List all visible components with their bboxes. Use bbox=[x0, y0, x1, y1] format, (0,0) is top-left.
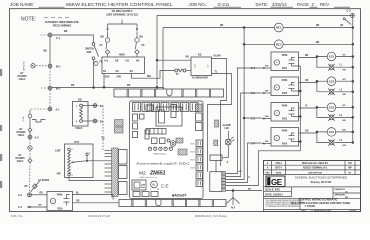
svg-text:(AIRFLOW): (AIRFLOW) bbox=[23, 61, 26, 71]
wire to lamp L1 bbox=[317, 57, 329, 68]
wire W-1 to W-2 dashed bbox=[49, 68, 51, 86]
svg-text:BK: BK bbox=[44, 50, 48, 53]
K2 bottom label bbox=[192, 76, 208, 79]
wire sensor2 dashed down bbox=[29, 150, 31, 158]
by others field text 1 bbox=[17, 73, 27, 81]
transformer primary tap labels bbox=[105, 59, 140, 63]
wire C-1 down to W-1 bbox=[44, 37, 51, 64]
controller small print bbox=[139, 176, 157, 179]
wire GC3 to bus bbox=[336, 105, 354, 108]
supply label line1 bbox=[111, 9, 132, 13]
terminal A-1 bbox=[48, 107, 60, 111]
relay RX5 contact bbox=[64, 195, 70, 206]
thermostat DT1 box bbox=[65, 141, 94, 178]
wire K2 output HL bbox=[212, 56, 227, 166]
svg-text:FIELD: FIELD bbox=[18, 135, 25, 137]
terminal S-2 bbox=[93, 119, 104, 123]
relay RX3 coil bbox=[274, 110, 279, 115]
footer filename left bbox=[11, 214, 23, 218]
svg-text:c: c bbox=[150, 189, 151, 191]
relay RX1 coil bbox=[274, 60, 279, 65]
svg-text:TO 480V SUPPLY: TO 480V SUPPLY bbox=[111, 9, 132, 13]
wire L1 to bus bbox=[334, 66, 354, 72]
svg-text:K2: K2 bbox=[198, 53, 202, 57]
svg-text:BO3: BO3 bbox=[191, 160, 195, 162]
svg-text:BK: BK bbox=[71, 85, 75, 87]
svg-text:BK: BK bbox=[101, 36, 105, 39]
svg-text:PAM: PAM bbox=[282, 128, 288, 132]
upper connector block 1 bbox=[115, 120, 124, 127]
wire GC4 to bus bbox=[336, 129, 354, 133]
left edge mark 1 bbox=[0, 69, 2, 76]
svg-text:KOK .FIL: KOK .FIL bbox=[11, 214, 23, 218]
svg-text:REV.: REV. bbox=[320, 2, 330, 7]
svg-text:Ramsey, NJ 07446: Ramsey, NJ 07446 bbox=[311, 181, 332, 184]
output connector J1 bbox=[210, 172, 222, 192]
controller jumper row bbox=[148, 147, 172, 156]
controller mid parts bbox=[145, 129, 183, 144]
wire RX4 output to GC4 bbox=[299, 131, 328, 134]
svg-text:GENERAL ELECTRONIC ENTERPRIS: GENERAL ELECTRONIC ENTERPRISES bbox=[295, 175, 348, 179]
svg-text:PAGE: PAGE bbox=[297, 2, 309, 7]
svg-text:40F: 40F bbox=[57, 173, 62, 176]
wire A-1 dashed left bbox=[31, 108, 48, 110]
wire K2 output TL bbox=[208, 71, 232, 171]
wire pin5 common chain bbox=[226, 66, 301, 186]
wire W-2 BK run to rail bbox=[52, 85, 164, 89]
drawn by cell bbox=[333, 187, 361, 199]
svg-text:BO1: BO1 bbox=[191, 144, 195, 146]
terminal S-1 bbox=[93, 104, 104, 108]
contactor coil GC2 bbox=[327, 77, 336, 86]
svg-text:C-1: C-1 bbox=[56, 37, 61, 40]
svg-text:OR: OR bbox=[305, 80, 309, 82]
wire GC1 to bus bbox=[336, 54, 354, 57]
DT1 terminal top bbox=[68, 148, 73, 151]
svg-text:OTHERS: OTHERS bbox=[17, 76, 27, 78]
svg-text:GC3: GC3 bbox=[329, 106, 335, 110]
terminal block group 3 bbox=[119, 182, 128, 195]
svg-text:JOB NAME:: JOB NAME: bbox=[10, 2, 34, 7]
output connector pin column bbox=[222, 172, 226, 192]
svg-text:480V: 480V bbox=[119, 53, 125, 57]
relay RX5 box bbox=[47, 192, 73, 211]
left edge mark 3 bbox=[0, 154, 2, 161]
relay RX4 contact bbox=[289, 133, 295, 142]
svg-text:WH: WH bbox=[343, 70, 347, 72]
svg-text:X3: X3 bbox=[130, 69, 134, 73]
svg-text:BY: BY bbox=[18, 155, 22, 157]
left edge mark 2 bbox=[0, 125, 2, 131]
supply label line2 bbox=[106, 13, 137, 17]
svg-text:4 STAGE: 4 STAGE bbox=[305, 205, 316, 208]
DT1 terminal bottom bbox=[68, 173, 73, 177]
svg-text:REPLACE GC-1 MFG BY: REPLACE GC-1 MFG BY bbox=[302, 162, 328, 165]
relay RX4 box bbox=[271, 128, 299, 147]
wire right bus vertical bbox=[352, 18, 354, 144]
svg-text:RX5: RX5 bbox=[57, 207, 63, 211]
svg-text:RH: RH bbox=[348, 163, 352, 165]
footer dwg filename bbox=[195, 214, 227, 218]
wire to lamp L3 bbox=[317, 107, 329, 117]
header job no bbox=[189, 2, 242, 7]
relay RX1 box bbox=[271, 52, 299, 71]
svg-text:SHEET: SHEET bbox=[351, 210, 356, 212]
relay RX2 coil bbox=[274, 85, 279, 90]
svg-text:ADDED TERMINAL N-2: ADDED TERMINAL N-2 bbox=[303, 167, 328, 170]
svg-text:BY: BY bbox=[19, 129, 23, 131]
proprietary small print bbox=[266, 199, 305, 208]
svg-text:1/5/14: 1/5/14 bbox=[275, 162, 282, 165]
svg-text:DASHED LINES INDICATE: DASHED LINES INDICATE bbox=[45, 20, 79, 24]
controller top terminal blocks bbox=[133, 103, 199, 112]
svg-text:FIELD: FIELD bbox=[76, 128, 83, 130]
wire W-2 to A-1 dashed bbox=[49, 90, 51, 107]
svg-text:WH: WH bbox=[265, 66, 269, 68]
controller UL logo bbox=[150, 181, 159, 190]
relay RX3 contact bbox=[289, 108, 295, 117]
svg-text:ALT/BREAKER: ALT/BREAKER bbox=[192, 76, 208, 79]
footer date time bbox=[88, 214, 111, 218]
svg-text:120F: 120F bbox=[55, 150, 61, 153]
terminal C-3 top right bbox=[347, 10, 355, 18]
svg-text:Port: Port bbox=[141, 186, 145, 189]
wire label BK left bbox=[101, 36, 105, 39]
svg-text:WH: WH bbox=[265, 141, 269, 143]
wire RX5 output BL bbox=[73, 192, 114, 199]
svg-text:zn551 controller rev c: zn551 controller rev c bbox=[139, 176, 157, 179]
svg-text:FIELD WIRING: FIELD WIRING bbox=[53, 24, 72, 28]
K2 inner label right bbox=[208, 64, 210, 68]
svg-text:DATE: DATE bbox=[276, 171, 282, 174]
svg-text:DATE:: DATE: bbox=[256, 2, 269, 7]
svg-text:4/3/2014 9:47 AM: 4/3/2014 9:47 AM bbox=[88, 214, 111, 218]
svg-text:FIELD: FIELD bbox=[19, 79, 26, 81]
wire transformer X1 down bbox=[103, 74, 106, 89]
svg-text:AutomatedLogic® DDC: AutomatedLogic® DDC bbox=[136, 162, 191, 166]
wire DT1 bottom out bbox=[69, 176, 112, 181]
company address bbox=[311, 181, 332, 184]
svg-text:OR: OR bbox=[76, 201, 80, 203]
transformer T1 box bbox=[102, 57, 145, 74]
svg-text:WH: WH bbox=[343, 145, 347, 147]
controller battery bbox=[170, 141, 176, 147]
relay RX4 coil bbox=[274, 135, 279, 140]
svg-text:OTHERS: OTHERS bbox=[16, 132, 26, 134]
wire BC2 row bbox=[243, 42, 354, 46]
wire stat down bbox=[29, 118, 31, 128]
svg-text:8/7/14: 8/7/14 bbox=[275, 167, 282, 170]
svg-text:DRAWN BY:: DRAWN BY: bbox=[335, 188, 346, 191]
company logo GE bbox=[266, 176, 285, 187]
svg-text:CC: CC bbox=[345, 191, 349, 193]
svg-text:BY: BY bbox=[20, 73, 24, 75]
note text line 1 bbox=[45, 20, 79, 24]
alarm wire down bbox=[216, 145, 228, 172]
controller cpu block bbox=[146, 105, 182, 127]
wire C-3 entry bbox=[251, 116, 271, 121]
svg-text:BK: BK bbox=[64, 30, 68, 33]
svg-text:DESCRIPTION: DESCRIPTION bbox=[308, 172, 322, 174]
svg-text:000038-GD2_CV2-B.dwg: 000038-GD2_CV2-B.dwg bbox=[195, 214, 227, 218]
title block rule 1 bbox=[264, 186, 361, 188]
duct sensor DS box bbox=[73, 97, 89, 130]
svg-text:WH: WH bbox=[147, 76, 151, 78]
DT1 range label 40F bbox=[57, 173, 62, 176]
svg-text:A: A bbox=[227, 161, 229, 164]
revision table bbox=[264, 161, 361, 175]
note label bbox=[21, 17, 36, 23]
wire L3 to bus bbox=[334, 116, 354, 122]
svg-text:SW1: SW1 bbox=[87, 52, 93, 54]
svg-text:GE: GE bbox=[271, 178, 283, 187]
note dashed sample bbox=[44, 17, 72, 19]
pilot lamp L2 bbox=[328, 89, 343, 96]
svg-text:PAM: PAM bbox=[57, 192, 63, 196]
svg-text:HS: HS bbox=[340, 25, 344, 27]
svg-text:BK: BK bbox=[127, 85, 131, 87]
svg-text:DWG:: DWG: bbox=[301, 210, 307, 212]
wire pin3 to BC and RX3 bbox=[226, 26, 262, 179]
controller bottom blocks bbox=[133, 192, 158, 197]
svg-text:BR: BR bbox=[305, 55, 309, 57]
relay RX1 contact bbox=[289, 58, 295, 67]
svg-text:120V: 120V bbox=[104, 74, 110, 78]
contactor coil GC1 bbox=[327, 52, 336, 61]
svg-text:ZN551: ZN551 bbox=[149, 170, 166, 176]
wire RX2 output to GC2 bbox=[299, 80, 328, 83]
pilot lamp L1 bbox=[328, 64, 343, 71]
svg-text:86KW ELECTRIC HEATER CONTRO: 86KW ELECTRIC HEATER CONTROL PANEL bbox=[66, 2, 173, 7]
title block frame bbox=[264, 161, 361, 212]
controller brand text bbox=[136, 162, 191, 166]
K2 inner label left bbox=[195, 63, 197, 68]
svg-text:WH: WH bbox=[265, 116, 269, 118]
scale field bbox=[265, 188, 280, 191]
svg-text:BC1: BC1 bbox=[276, 26, 282, 30]
svg-text:X2: X2 bbox=[116, 69, 120, 73]
wire RX1 output to GC1 bbox=[299, 55, 328, 58]
wire to lamp L4 bbox=[317, 132, 329, 143]
switch SW1 bbox=[85, 43, 99, 60]
svg-text:REV: REV bbox=[265, 172, 270, 174]
svg-text:BK: BK bbox=[39, 205, 43, 207]
alarm wire up bbox=[227, 131, 229, 139]
title block rule 3 bbox=[264, 198, 361, 211]
svg-text:(COA): (COA) bbox=[22, 116, 25, 121]
wire dashed down to A-2 bbox=[29, 163, 32, 193]
supply drop left with arrow bbox=[106, 24, 108, 38]
wire C-1 to switch SW1 bbox=[52, 35, 94, 43]
header job name label bbox=[10, 2, 34, 7]
controller left small parts bbox=[133, 114, 145, 138]
svg-text:BK: BK bbox=[186, 56, 190, 58]
wire break marks bbox=[102, 137, 105, 140]
svg-text:RX1: RX1 bbox=[282, 66, 288, 70]
wire pin4 to RX4 bbox=[226, 143, 262, 183]
svg-text:GN: GN bbox=[305, 131, 309, 133]
svg-text:24V: 24V bbox=[117, 74, 122, 78]
diamond fuse holder A3 bbox=[28, 128, 32, 135]
wire DS to S-2 bbox=[82, 120, 93, 122]
wire branch to K2 bbox=[157, 59, 191, 61]
scale date cell lines bbox=[264, 187, 292, 197]
contact chain stubs bbox=[292, 90, 302, 143]
ground symbol N-2 bbox=[227, 191, 240, 210]
controller model text bbox=[139, 170, 166, 176]
fuse F7 bbox=[175, 69, 191, 76]
wire pin1 to RX1 bbox=[226, 68, 262, 174]
svg-text:3/25/14: 3/25/14 bbox=[272, 2, 287, 7]
wire RX5 output OR bbox=[73, 201, 120, 203]
relay RX2 box bbox=[271, 77, 299, 96]
svg-text:RX2: RX2 bbox=[282, 91, 288, 95]
field sensor 2 bbox=[28, 146, 32, 150]
svg-text:BACnet®: BACnet® bbox=[172, 193, 187, 197]
svg-text:FIELD: FIELD bbox=[17, 161, 24, 163]
svg-text:PAM: PAM bbox=[282, 103, 288, 107]
svg-text:BO2: BO2 bbox=[191, 152, 195, 154]
svg-text:4A BUSS: 4A BUSS bbox=[38, 178, 49, 182]
wire to lamp L2 bbox=[317, 81, 329, 92]
svg-text:MP: MP bbox=[348, 168, 352, 170]
wire pin6 ground run bbox=[226, 188, 263, 191]
wire A-2 to relay RX5 bbox=[32, 193, 48, 195]
relay RX5 coil bbox=[50, 198, 55, 203]
svg-text:10-910-21-03: 10-910-21-03 bbox=[314, 209, 332, 213]
svg-text:NOTE:: NOTE: bbox=[21, 17, 36, 23]
svg-text:DS: DS bbox=[78, 97, 82, 101]
wire DT1 wiper out bbox=[87, 160, 112, 162]
alarm dropping box bbox=[210, 155, 229, 164]
header title text bbox=[66, 2, 173, 7]
svg-text:HL/BH: HL/BH bbox=[214, 56, 221, 58]
svg-text:3: 3 bbox=[89, 153, 90, 155]
wire label BK right bbox=[140, 36, 144, 39]
svg-text:RX3: RX3 bbox=[282, 117, 288, 121]
svg-text:2: 2 bbox=[72, 175, 73, 177]
svg-text:C-3: C-3 bbox=[347, 10, 352, 13]
vcoa vertical label bbox=[22, 116, 25, 121]
DT1 resistor element bbox=[68, 151, 71, 174]
svg-text:GC2: GC2 bbox=[329, 79, 335, 83]
relay coil BC2 bbox=[274, 40, 283, 49]
wire GC2 to bus bbox=[336, 79, 354, 82]
controller right output blocks bbox=[191, 140, 203, 187]
label 480V bbox=[119, 53, 125, 57]
terminal block group 1 bbox=[119, 150, 128, 165]
controller right blocks upper bbox=[196, 104, 203, 131]
DT1 wiper arm bbox=[71, 153, 90, 164]
header date bbox=[256, 2, 294, 7]
controller bacnet text bbox=[172, 193, 187, 197]
svg-text:BR: BR bbox=[220, 25, 224, 27]
DS resistor element bbox=[80, 107, 83, 119]
relay RX3 box bbox=[271, 103, 299, 122]
svg-text:H1: H1 bbox=[105, 59, 109, 63]
alarm led D1 bbox=[225, 137, 234, 145]
svg-text:C E: C E bbox=[161, 184, 169, 190]
svg-text:DATE: 03/25/14: DATE: 03/25/14 bbox=[265, 194, 283, 197]
stat contact circle bbox=[28, 110, 32, 118]
header job name underline bbox=[39, 6, 65, 8]
switch HS at top right bbox=[340, 18, 351, 27]
wire C-2 entry bbox=[251, 91, 271, 96]
relay RX2 contact bbox=[289, 83, 295, 92]
terminal strip stub wires bbox=[105, 151, 112, 193]
terminal block group 2 bbox=[119, 166, 128, 179]
svg-text:WH: WH bbox=[343, 94, 347, 96]
fuse F5 bbox=[100, 38, 110, 50]
wire top rail bbox=[157, 15, 350, 17]
svg-text:PAM: PAM bbox=[282, 53, 288, 57]
DS terminal 1 bbox=[76, 104, 82, 107]
svg-text:BR: BR bbox=[316, 25, 320, 27]
wire label BK into K2 bbox=[186, 56, 190, 58]
svg-text:H3: H3 bbox=[126, 59, 130, 63]
svg-text:SWITCH: SWITCH bbox=[85, 49, 95, 51]
note text line 2 bbox=[53, 24, 72, 28]
svg-text:1: 1 bbox=[72, 149, 73, 151]
wire S-1 dashed right bbox=[97, 106, 103, 120]
svg-text:LED: LED bbox=[225, 128, 230, 130]
left edge mark 4 bbox=[0, 181, 2, 188]
wire transformer X3 to fuse F7 bbox=[132, 71, 175, 79]
title block rule 2 bbox=[264, 197, 361, 199]
K2 box bbox=[191, 53, 212, 76]
by others field text 2 bbox=[16, 129, 26, 137]
svg-text:us: us bbox=[157, 189, 159, 191]
svg-text:ALARM: ALARM bbox=[223, 124, 231, 127]
header page rev bbox=[297, 2, 350, 7]
wire L4 to bus bbox=[334, 141, 354, 147]
svg-text:GC4: GC4 bbox=[329, 130, 335, 134]
wire DS to S-1 bbox=[82, 105, 93, 107]
relay coil BC1 bbox=[274, 23, 283, 32]
terminal C-2 arrow bbox=[18, 205, 47, 210]
wire pin2 to RX2 bbox=[226, 93, 262, 177]
svg-text:A-1: A-1 bbox=[56, 108, 61, 111]
pilot lamp L3 bbox=[328, 114, 343, 121]
contactor coil GC3 bbox=[327, 103, 336, 112]
svg-text:W-1: W-1 bbox=[56, 65, 61, 68]
svg-text:X1: X1 bbox=[103, 69, 107, 73]
wire BC feed vertical bbox=[162, 28, 164, 90]
svg-text:RD: RD bbox=[40, 193, 44, 195]
fuse holder diamond left bbox=[105, 50, 109, 57]
drawing title bbox=[291, 198, 351, 208]
wire BC1 row bbox=[163, 25, 354, 29]
bottom mounting rail with U notch bbox=[119, 200, 226, 207]
terminal C-1 bbox=[41, 30, 68, 40]
svg-text:H4: H4 bbox=[136, 59, 140, 63]
svg-text:BK: BK bbox=[25, 186, 29, 188]
alarm component upper bbox=[215, 120, 219, 127]
alarm resistor block bbox=[214, 140, 218, 146]
supply drop right with arrow bbox=[136, 24, 138, 38]
terminal W-1 bbox=[48, 64, 61, 68]
controller lan port bbox=[132, 180, 146, 190]
svg-text:WATCH block: WATCH block bbox=[154, 153, 168, 156]
wire C-1 entry bbox=[251, 66, 271, 71]
svg-text:A-2: A-2 bbox=[18, 194, 23, 197]
wire S-2 dashed right bbox=[97, 121, 103, 134]
supply bracket bbox=[108, 20, 138, 25]
wire A-3 dashed down bbox=[29, 139, 31, 146]
wire L2 to bus bbox=[334, 91, 354, 97]
terminal W-2 bbox=[41, 86, 61, 90]
airflow vertical label bbox=[23, 61, 26, 71]
